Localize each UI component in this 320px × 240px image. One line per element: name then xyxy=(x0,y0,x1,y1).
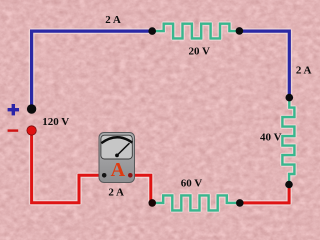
resistor R3 60V (bottom) xyxy=(152,195,239,210)
svg-text:2 A: 2 A xyxy=(108,186,124,198)
node dot R1 left terminal xyxy=(148,27,156,35)
battery positive terminal dot xyxy=(27,104,36,113)
svg-text:2 A: 2 A xyxy=(105,14,121,26)
ammeter scale arc xyxy=(101,137,132,143)
svg-text:2 A: 2 A xyxy=(296,65,312,77)
node dot R3 right terminal xyxy=(236,199,244,207)
wire ammeter left terminal to battery minus xyxy=(32,131,102,203)
battery negative terminal dot xyxy=(27,126,36,135)
node dot R1 right terminal xyxy=(236,27,244,35)
svg-text:60 V: 60 V xyxy=(181,178,203,190)
svg-text:40 V: 40 V xyxy=(260,132,282,144)
node dot R3 left terminal xyxy=(148,199,156,207)
ammeter right terminal xyxy=(128,173,133,178)
ammeter needle xyxy=(117,143,130,155)
svg-text:120 V: 120 V xyxy=(42,116,69,128)
svg-text:20 V: 20 V xyxy=(188,46,210,58)
wire R3 left to ammeter right terminal xyxy=(131,175,152,203)
ammeter left terminal xyxy=(102,173,107,178)
battery minus sign xyxy=(8,129,19,131)
battery plus sign xyxy=(8,104,19,115)
ammeter screen xyxy=(101,135,132,159)
svg-text:A: A xyxy=(111,159,126,181)
wire top-left blue (battery + up and across to R1) xyxy=(32,31,152,109)
ammeter needle pivot xyxy=(115,154,119,158)
wire top-right blue (R1 to right corner and down) xyxy=(239,31,289,97)
node dot R2 top terminal xyxy=(286,94,294,102)
resistor R2 40V (right) xyxy=(282,98,294,185)
resistor R1 20V (top) xyxy=(152,24,239,39)
node dot R2 bottom terminal xyxy=(285,181,293,189)
wire bottom-right red (R2 bottom to R3 right) xyxy=(239,185,289,203)
ammeter body xyxy=(99,133,135,183)
